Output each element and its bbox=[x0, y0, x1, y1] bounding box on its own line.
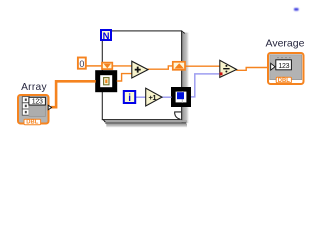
wire: Divide output to Average indicator bbox=[236, 68, 268, 71]
for-loop frame (stacked pages) bbox=[102, 31, 189, 128]
svg-text:+1: +1 bbox=[149, 93, 157, 102]
bottom-left fold diagonal bbox=[103, 119, 105, 122]
input arrow bbox=[271, 63, 275, 70]
wire: tunnel to Add bottom input bbox=[117, 74, 132, 81]
svg-text:123: 123 bbox=[32, 99, 43, 106]
page edge shading bottom (blurred stack) bbox=[104, 120, 187, 122]
123 display bbox=[276, 60, 292, 70]
svg-text:Array: Array bbox=[21, 82, 47, 93]
dog-ear page curl bottom-right bbox=[175, 112, 181, 119]
indexing tunnel (array in) bbox=[98, 73, 115, 90]
svg-text:Average: Average bbox=[266, 37, 305, 49]
control body bbox=[18, 95, 49, 124]
wire: increment to tunnel bbox=[161, 96, 172, 98]
wire: i terminal to increment bbox=[136, 96, 146, 98]
svg-text:DBL: DBL bbox=[278, 78, 290, 84]
index column cells bbox=[22, 97, 29, 103]
Average indicator bbox=[266, 37, 305, 84]
DBL tag bbox=[24, 119, 41, 124]
shift register left (down arrow) bbox=[102, 63, 112, 70]
svg-text:123: 123 bbox=[278, 63, 289, 70]
tunnel i+1 out bbox=[173, 89, 188, 104]
Add function bbox=[132, 61, 148, 78]
page edge shading right (blurred stack) bbox=[182, 33, 189, 124]
wire: constant 0 to left shift register bbox=[86, 65, 102, 67]
wire: right shift register to Divide top input bbox=[186, 65, 221, 67]
output arrow bbox=[48, 105, 51, 110]
wire: Array control to indexing tunnel (thick array wire) bbox=[51, 81, 96, 107]
Array control bbox=[18, 82, 52, 126]
svg-text:N: N bbox=[103, 31, 110, 42]
count terminal N bbox=[101, 30, 111, 42]
wire: left shift register to Add top input bbox=[113, 65, 132, 67]
stray blue mark top right bbox=[294, 8, 299, 11]
DBL tag bbox=[276, 77, 291, 83]
shift register right (up arrow) bbox=[173, 62, 185, 70]
coercion dot bbox=[220, 72, 223, 75]
tiny marks above display bbox=[277, 57, 291, 59]
svg-text:i: i bbox=[128, 93, 131, 104]
svg-text:DBL: DBL bbox=[26, 120, 38, 126]
wire: Add output to right shift register bbox=[148, 66, 173, 69]
svg-text:0: 0 bbox=[79, 59, 84, 69]
numeric constant 0 bbox=[78, 58, 86, 70]
element display bbox=[29, 105, 46, 116]
top-right fold diagonal bbox=[182, 31, 185, 33]
wire: tunnel to Divide bottom input bbox=[191, 74, 220, 97]
indicator body bbox=[268, 53, 304, 84]
iteration terminal i bbox=[124, 91, 135, 104]
front page bbox=[102, 31, 181, 120]
increment function +1 bbox=[146, 88, 162, 106]
Divide function bbox=[220, 60, 237, 77]
